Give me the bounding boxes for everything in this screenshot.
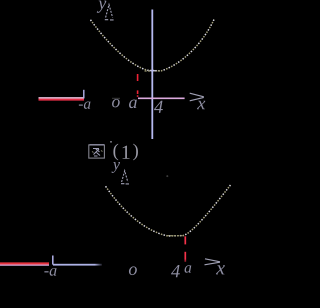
label a (bottom figure) xyxy=(185,265,192,272)
x label (bottom figure) xyxy=(216,265,225,274)
x-axis lavender segment (bottom figure) xyxy=(0,0,1,1)
parabola (top figure, dotted curve) xyxy=(91,20,215,71)
caption 1 xyxy=(123,146,130,159)
red segment on negative x-axis (top figure) xyxy=(39,98,85,100)
caption ( xyxy=(113,144,118,161)
caption character tu (figure 1) xyxy=(89,145,105,158)
label -a (bottom figure) xyxy=(44,268,56,276)
faint dust dot xyxy=(166,175,168,177)
x-axis (top figure, plum) xyxy=(138,97,185,99)
caption ) xyxy=(133,144,138,161)
parabola (bottom figure, dotted curve) xyxy=(106,185,231,236)
label 4 (bottom figure) xyxy=(171,265,180,277)
label o origin (top figure) xyxy=(112,99,120,107)
tick at -a (bottom figure) xyxy=(52,256,54,265)
red dashed line at x=a (top figure) xyxy=(137,74,139,97)
y label (bottom figure) xyxy=(112,162,120,173)
label -a (top figure) xyxy=(79,101,91,108)
x-axis arrowhead (top figure) xyxy=(190,93,204,101)
y-axis vertical line (top figure) xyxy=(151,10,153,140)
caption dot xyxy=(110,141,112,143)
y label (top figure) xyxy=(97,1,107,13)
vertex tick (top figure) xyxy=(145,70,162,72)
label o origin (bottom figure) xyxy=(129,266,137,275)
vertex tick (bottom figure) xyxy=(167,235,184,237)
x label (top figure) xyxy=(197,101,205,109)
tick at -a (top figure) xyxy=(83,90,85,99)
label a (top figure) xyxy=(129,100,137,109)
red segment on negative x-axis (bottom figure) xyxy=(0,263,49,265)
label 4 (top figure) xyxy=(154,101,163,113)
y-axis arrow (bottom figure) xyxy=(121,171,129,184)
y-axis arrow (top figure) xyxy=(105,5,114,20)
red dashed line at x=a (bottom figure) xyxy=(184,236,186,261)
x-axis arrowhead (bottom figure) xyxy=(205,259,221,265)
faint axis remnant near o (top figure) xyxy=(112,97,120,99)
